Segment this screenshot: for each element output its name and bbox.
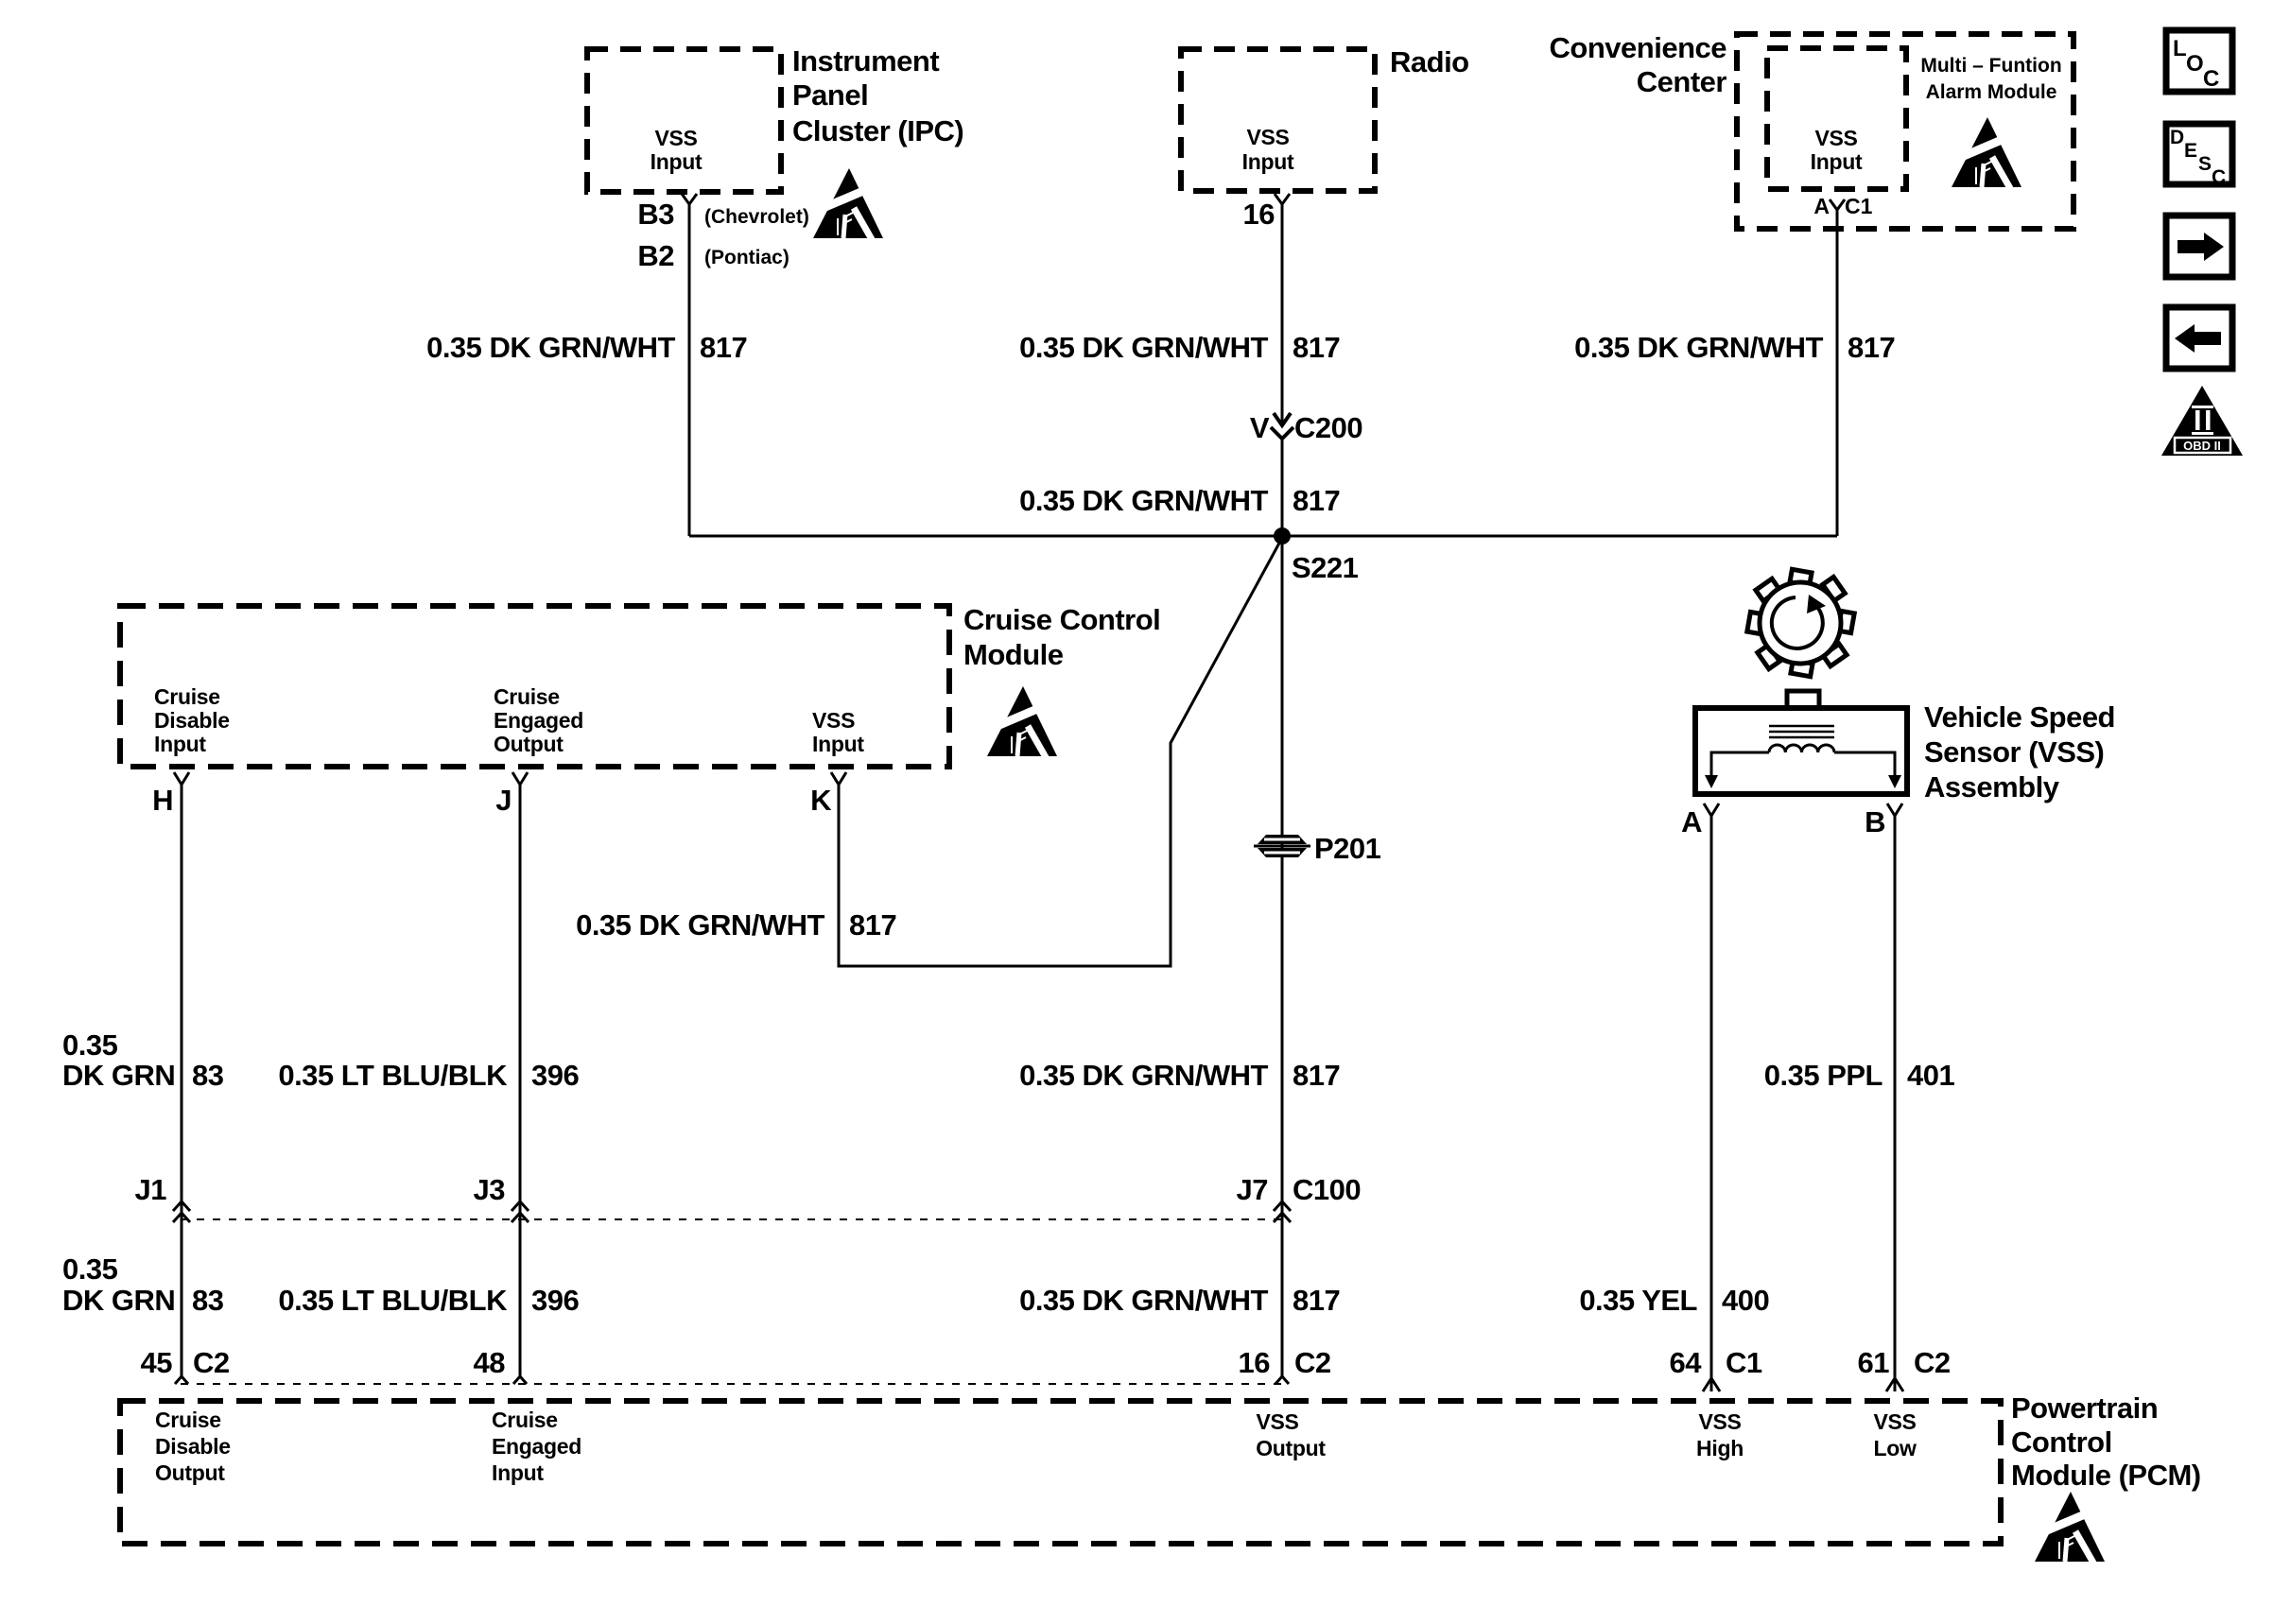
svg-text:VSS: VSS bbox=[812, 708, 855, 733]
svg-text:16: 16 bbox=[1239, 1346, 1271, 1379]
VSS internal leads with arrows bbox=[1705, 752, 1901, 788]
svg-text:VSS: VSS bbox=[1256, 1409, 1298, 1434]
connector chevron at 16 bbox=[1275, 1376, 1289, 1384]
svg-text:0.35 LT BLU/BLK: 0.35 LT BLU/BLK bbox=[278, 1059, 508, 1092]
svg-text:Input: Input bbox=[812, 732, 864, 756]
svg-text:0.35 DK GRN/WHT: 0.35 DK GRN/WHT bbox=[1019, 484, 1268, 517]
svg-text:Control: Control bbox=[2011, 1425, 2112, 1459]
svg-text:A: A bbox=[1681, 805, 1702, 838]
pin 64 C1 bbox=[1670, 1346, 1762, 1379]
svg-text:(Pontiac): (Pontiac) bbox=[704, 247, 789, 268]
svg-text:C: C bbox=[2203, 66, 2219, 92]
svg-text:Alarm Module: Alarm Module bbox=[1926, 81, 2057, 103]
svg-text:Input: Input bbox=[1242, 149, 1294, 174]
svg-text:Disable: Disable bbox=[154, 708, 230, 733]
svg-text:High: High bbox=[1696, 1436, 1744, 1460]
wire label 0.35 LT BLU/BLK 396 (below C100) bbox=[278, 1284, 579, 1317]
VSS pickup coil bbox=[1769, 745, 1834, 752]
pin B3 (Chevrolet) bbox=[637, 198, 809, 231]
pin fork at Radio bbox=[1275, 194, 1290, 204]
svg-text:817: 817 bbox=[849, 908, 896, 942]
svg-text:Center: Center bbox=[1637, 65, 1727, 98]
svg-text:C200: C200 bbox=[1294, 411, 1362, 444]
connector chevron at 45 bbox=[175, 1376, 188, 1384]
svg-text:817: 817 bbox=[1848, 331, 1895, 364]
label: Vehicle Speed Sensor (VSS) Assembly bbox=[1924, 700, 2115, 803]
wire: Convenience Center pin A to splice bus bbox=[1836, 208, 1839, 536]
svg-text:C100: C100 bbox=[1293, 1173, 1361, 1206]
icon: LOC box bbox=[2166, 30, 2232, 92]
component box: Vehicle Speed Sensor assembly bbox=[1695, 708, 1907, 794]
pin fork at A bbox=[1704, 803, 1719, 816]
VSS reluctor gear symbol bbox=[1747, 569, 1854, 676]
svg-text:P201: P201 bbox=[1314, 832, 1381, 865]
VSS core lines bbox=[1769, 726, 1834, 737]
pin 45 C2 bbox=[141, 1346, 230, 1379]
svg-text:0.35 LT BLU/BLK: 0.35 LT BLU/BLK bbox=[278, 1284, 508, 1317]
svg-text:0.35 DK GRN/WHT: 0.35 DK GRN/WHT bbox=[1574, 331, 1823, 364]
svg-text:Cruise: Cruise bbox=[154, 684, 220, 709]
svg-text:83: 83 bbox=[192, 1284, 224, 1317]
svg-text:0.35 DK GRN/WHT: 0.35 DK GRN/WHT bbox=[1019, 1059, 1268, 1092]
wire: cruise disable H down to PCM 45 bbox=[181, 783, 183, 1376]
svg-text:(Chevrolet): (Chevrolet) bbox=[704, 206, 809, 228]
svg-text:817: 817 bbox=[1293, 1059, 1340, 1092]
svg-text:Cruise: Cruise bbox=[155, 1408, 221, 1432]
label: Powertrain Control Module (PCM) bbox=[2011, 1391, 2201, 1492]
svg-text:Engaged: Engaged bbox=[494, 708, 583, 733]
pin fork at K bbox=[831, 772, 846, 785]
ESD symbol at IPC bbox=[813, 168, 883, 241]
svg-text:396: 396 bbox=[531, 1059, 579, 1092]
svg-text:Output: Output bbox=[494, 732, 564, 756]
svg-text:C2: C2 bbox=[1914, 1346, 1951, 1379]
svg-text:C1: C1 bbox=[1726, 1346, 1762, 1379]
svg-text:VSS: VSS bbox=[1246, 125, 1289, 149]
svg-text:0.35 DK GRN/WHT: 0.35 DK GRN/WHT bbox=[576, 908, 824, 942]
wire label 0.35 DK GRN/WHT 817 (below C100) bbox=[1019, 1284, 1340, 1317]
svg-text:Vehicle Speed: Vehicle Speed bbox=[1924, 700, 2115, 734]
svg-text:Convenience: Convenience bbox=[1550, 31, 1727, 64]
svg-text:Panel: Panel bbox=[792, 78, 868, 112]
wire label 0.35 PPL 401 (VSS low) bbox=[1764, 1059, 1955, 1092]
svg-text:48: 48 bbox=[474, 1346, 506, 1379]
svg-text:VSS: VSS bbox=[1814, 126, 1857, 150]
module box: Powertrain Control Module (PCM) bbox=[120, 1401, 2001, 1544]
svg-text:Output: Output bbox=[1256, 1436, 1326, 1460]
svg-text:S221: S221 bbox=[1292, 551, 1359, 584]
connector P201 bbox=[1254, 832, 1381, 865]
wire label 0.35 DK GRN/WHT 817 (radio branch) bbox=[1019, 331, 1340, 364]
pin A C1 (Convenience Center) bbox=[1813, 194, 1872, 218]
connector C200 bbox=[1250, 411, 1362, 444]
wire label 0.35 DK GRN/WHT 817 (below C200) bbox=[1019, 484, 1340, 517]
svg-text:Radio: Radio bbox=[1390, 45, 1469, 78]
svg-text:Module (PCM): Module (PCM) bbox=[2011, 1459, 2201, 1492]
wire label 0.35 DK GRN 83 (below C100) bbox=[62, 1253, 224, 1317]
svg-text:396: 396 bbox=[531, 1284, 579, 1317]
wire: IPC B3 to splice bus bbox=[688, 202, 691, 536]
icon: arrow left box bbox=[2166, 307, 2232, 369]
ESD symbol at PCM bbox=[2035, 1492, 2105, 1564]
pin fork at B bbox=[1887, 803, 1902, 816]
svg-text:0.35 DK GRN/WHT: 0.35 DK GRN/WHT bbox=[1019, 331, 1268, 364]
svg-text:L: L bbox=[2173, 36, 2187, 61]
splice S221 junction dot bbox=[1274, 527, 1291, 544]
svg-text:0.35 DK GRN/WHT: 0.35 DK GRN/WHT bbox=[426, 331, 675, 364]
svg-text:DK GRN: DK GRN bbox=[62, 1284, 175, 1317]
svg-text:401: 401 bbox=[1907, 1059, 1954, 1092]
wire label 0.35 DK GRN/WHT 817 (K branch) bbox=[576, 908, 896, 942]
svg-text:0.35: 0.35 bbox=[62, 1028, 118, 1062]
wire: C200 to splice S221 bbox=[1281, 437, 1284, 536]
svg-text:0.35: 0.35 bbox=[62, 1253, 118, 1286]
svg-text:400: 400 bbox=[1722, 1284, 1769, 1317]
connector chevron at 64 bbox=[1703, 1378, 1720, 1391]
module box: Radio bbox=[1181, 49, 1375, 191]
svg-text:A: A bbox=[1813, 194, 1830, 218]
ESD symbol at alarm module bbox=[1952, 117, 2021, 190]
svg-text:61: 61 bbox=[1858, 1346, 1890, 1379]
pin fork at Convenience Center bbox=[1830, 199, 1845, 210]
svg-text:Low: Low bbox=[1873, 1436, 1916, 1460]
svg-text:D: D bbox=[2170, 127, 2184, 148]
wire label 0.35 DK GRN/WHT 817 (convenience branch) bbox=[1574, 331, 1895, 364]
svg-text:K: K bbox=[810, 784, 832, 817]
module box: Multi-Funtion Alarm Module (inner VSS Input) bbox=[1767, 48, 1906, 189]
wire label 0.35 YEL 400 (VSS high) bbox=[1579, 1284, 1769, 1317]
svg-text:J3: J3 bbox=[474, 1173, 506, 1206]
pin fork at IPC bbox=[682, 194, 697, 204]
svg-text:J7: J7 bbox=[1237, 1173, 1268, 1206]
svg-text:Input: Input bbox=[651, 149, 703, 174]
svg-text:Input: Input bbox=[1811, 149, 1863, 174]
svg-text:817: 817 bbox=[1293, 484, 1340, 517]
svg-text:Input: Input bbox=[492, 1460, 544, 1485]
svg-text:Sensor (VSS): Sensor (VSS) bbox=[1924, 735, 2104, 769]
connector C100 dashed line bbox=[181, 1218, 1282, 1220]
svg-text:J1: J1 bbox=[135, 1173, 167, 1206]
svg-text:C2: C2 bbox=[193, 1346, 230, 1379]
icon: OBD II triangle bbox=[2161, 386, 2243, 456]
label: Multi-Funtion Alarm Module bbox=[1920, 55, 2061, 103]
connector chevrons at J3 bbox=[512, 1201, 529, 1222]
svg-text:16: 16 bbox=[1243, 198, 1275, 231]
pin fork at H bbox=[174, 772, 189, 785]
svg-text:Cluster (IPC): Cluster (IPC) bbox=[792, 114, 963, 147]
svg-text:Module: Module bbox=[963, 638, 1064, 671]
svg-text:Powertrain: Powertrain bbox=[2011, 1391, 2158, 1425]
icon: arrow right box bbox=[2166, 216, 2232, 277]
svg-text:V: V bbox=[1250, 411, 1270, 444]
svg-text:C1: C1 bbox=[1845, 194, 1873, 218]
svg-text:VSS: VSS bbox=[1698, 1409, 1741, 1434]
pin 61 C2 bbox=[1858, 1346, 1951, 1379]
VSS sensor tab bbox=[1787, 691, 1819, 709]
svg-text:0.35 YEL: 0.35 YEL bbox=[1579, 1284, 1697, 1317]
label: Cruise Control Module bbox=[963, 603, 1160, 671]
wire label 0.35 DK GRN 83 (H branch above C100) bbox=[62, 1028, 224, 1092]
svg-text:Instrument: Instrument bbox=[792, 44, 939, 78]
ESD symbol at cruise control module bbox=[987, 686, 1057, 759]
svg-text:Output: Output bbox=[155, 1460, 225, 1485]
pin 16 C2 bbox=[1239, 1346, 1331, 1379]
wire: VSS low B down to PCM 61 bbox=[1894, 814, 1897, 1391]
svg-text:VSS: VSS bbox=[1873, 1409, 1916, 1434]
svg-text:Disable: Disable bbox=[155, 1434, 231, 1459]
svg-text:Assembly: Assembly bbox=[1924, 770, 2060, 803]
svg-text:45: 45 bbox=[141, 1346, 173, 1379]
module box: Cruise Control Module bbox=[120, 606, 949, 767]
svg-text:Cruise: Cruise bbox=[494, 684, 560, 709]
wire: splice bus horizontal bbox=[689, 535, 1837, 538]
svg-text:OBD II: OBD II bbox=[2183, 439, 2221, 453]
svg-text:0.35 PPL: 0.35 PPL bbox=[1764, 1059, 1883, 1092]
svg-text:Cruise: Cruise bbox=[492, 1408, 558, 1432]
svg-text:Input: Input bbox=[154, 732, 206, 756]
connector chevron at 61 bbox=[1886, 1378, 1903, 1391]
wire label 0.35 DK GRN/WHT 817 (IPC branch) bbox=[426, 331, 747, 364]
wire: branch S221 to cruise control K bbox=[839, 538, 1282, 966]
svg-text:83: 83 bbox=[192, 1059, 224, 1092]
svg-text:0.35 DK GRN/WHT: 0.35 DK GRN/WHT bbox=[1019, 1284, 1268, 1317]
module box: Convenience Center (outer) bbox=[1737, 34, 2073, 229]
svg-text:B3: B3 bbox=[637, 198, 674, 231]
svg-text:64: 64 bbox=[1670, 1346, 1703, 1379]
svg-text:C2: C2 bbox=[1294, 1346, 1331, 1379]
svg-text:817: 817 bbox=[1293, 1284, 1340, 1317]
wire: main VSS output S221 down to PCM bbox=[1281, 536, 1284, 1376]
wire: cruise engaged J down to PCM 48 bbox=[519, 783, 522, 1376]
svg-text:B2: B2 bbox=[637, 239, 674, 272]
connector chevrons at J7 bbox=[1274, 1201, 1291, 1222]
connector chevron at 48 bbox=[513, 1376, 527, 1384]
wire label 0.35 LT BLU/BLK 396 (J branch above C100) bbox=[278, 1059, 579, 1092]
wire: Radio pin 16 down to C200 bbox=[1281, 202, 1284, 424]
svg-text:817: 817 bbox=[700, 331, 747, 364]
svg-text:817: 817 bbox=[1293, 331, 1340, 364]
module box: Instrument Panel Cluster (IPC) bbox=[587, 49, 781, 192]
svg-text:H: H bbox=[152, 784, 173, 817]
label: Convenience Center bbox=[1550, 31, 1727, 98]
connector C2/C1 dashed line at PCM bbox=[181, 1383, 1282, 1385]
svg-text:O: O bbox=[2186, 51, 2204, 77]
svg-text:J: J bbox=[495, 784, 512, 817]
svg-text:E: E bbox=[2184, 140, 2197, 162]
pin J7 / C100 bbox=[1237, 1173, 1362, 1206]
svg-text:C: C bbox=[2212, 166, 2226, 188]
svg-text:VSS: VSS bbox=[654, 126, 697, 150]
svg-text:Engaged: Engaged bbox=[492, 1434, 581, 1459]
wire: VSS high A down to PCM 64 bbox=[1710, 814, 1713, 1391]
connector chevrons at J1 bbox=[173, 1201, 190, 1222]
icon: DESC box bbox=[2166, 124, 2232, 188]
svg-text:B: B bbox=[1865, 805, 1885, 838]
svg-text:DK GRN: DK GRN bbox=[62, 1059, 175, 1092]
pin fork at J bbox=[512, 772, 528, 785]
pin B2 (Pontiac) bbox=[637, 239, 789, 272]
svg-text:Cruise Control: Cruise Control bbox=[963, 603, 1160, 636]
svg-text:Multi – Funtion: Multi – Funtion bbox=[1920, 55, 2061, 77]
label: Instrument Panel Cluster (IPC) bbox=[792, 44, 963, 147]
wire label 0.35 DK GRN/WHT 817 (main, above C100) bbox=[1019, 1059, 1340, 1092]
svg-text:S: S bbox=[2198, 153, 2212, 175]
